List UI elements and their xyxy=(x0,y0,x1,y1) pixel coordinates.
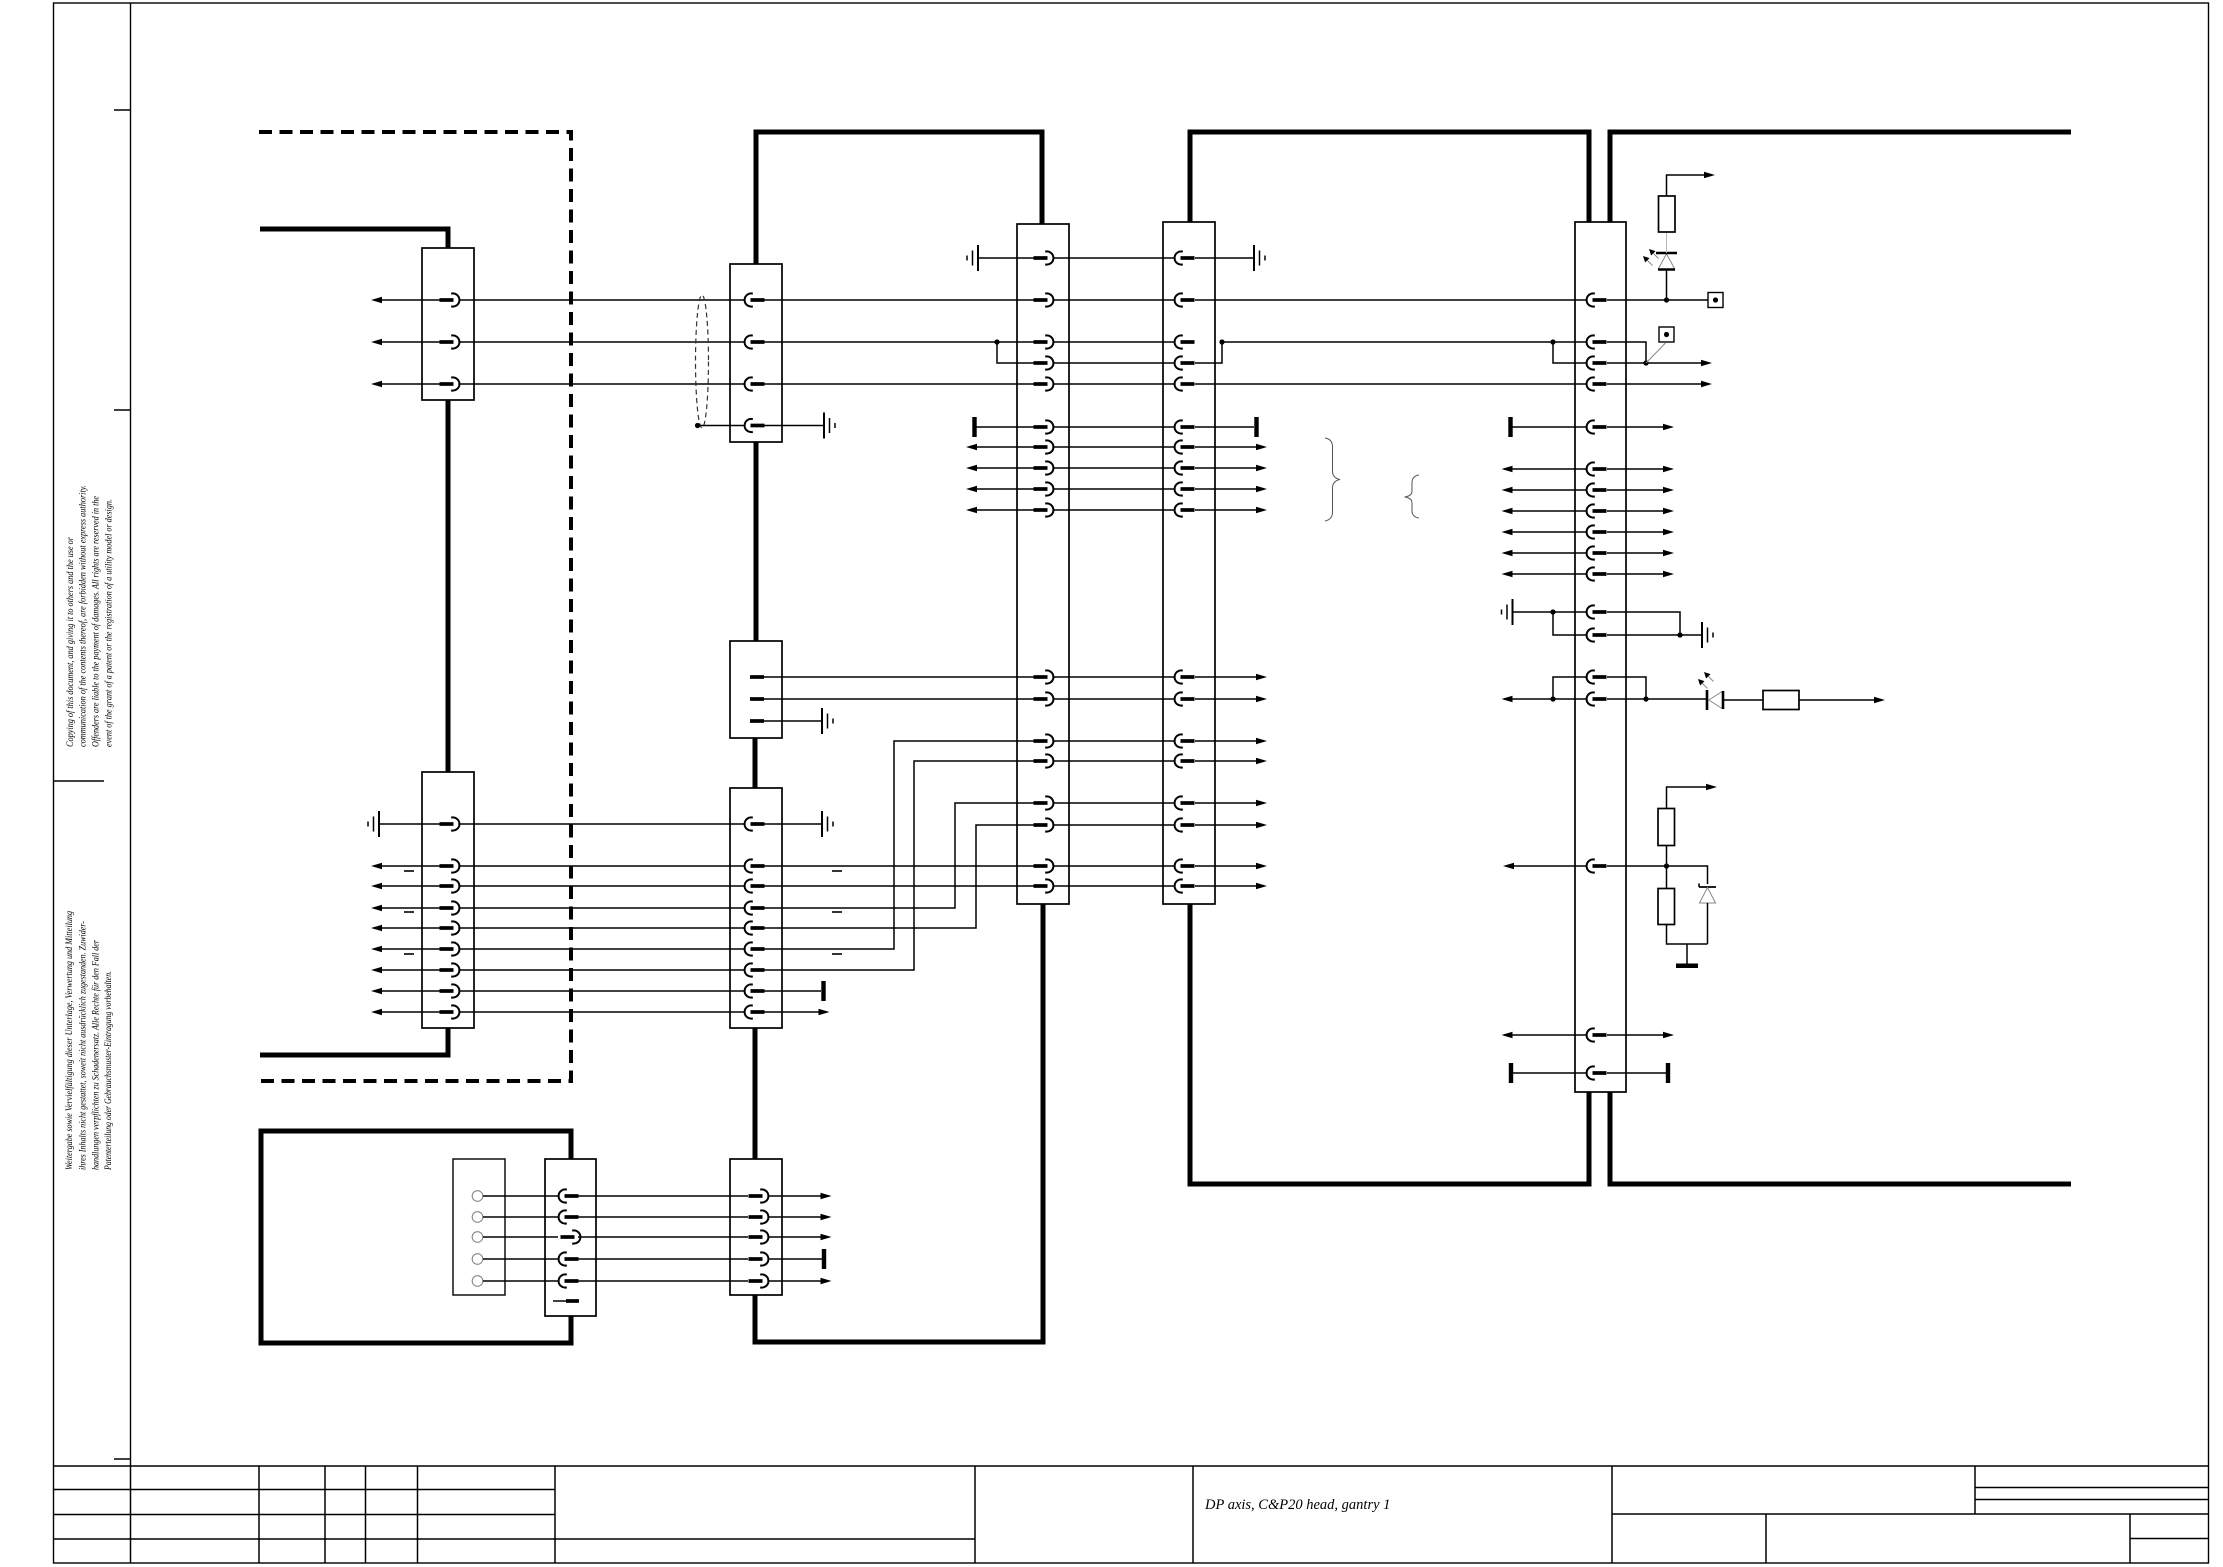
wire K5-K6 row y741 xyxy=(1054,740,1174,742)
margin cell divider xyxy=(54,780,105,782)
pin K9.5 xyxy=(559,1274,579,1287)
ground symbol left of K7 row612 xyxy=(1502,599,1513,625)
termination bar left of K7 row1073 xyxy=(1509,1063,1513,1083)
wire K4-K8 row y866 xyxy=(460,865,744,867)
connector K1 box xyxy=(422,248,474,400)
pin K5.14 row y761 xyxy=(1034,754,1054,767)
pin K5.18 row y886 xyxy=(1034,879,1054,892)
pin K6.2 row300 xyxy=(1175,293,1195,306)
wire K5-K6 row y489 xyxy=(1054,488,1174,490)
bridge wire rows342-363 at K6 xyxy=(1195,342,1222,363)
connector K5 box xyxy=(1017,224,1069,904)
ground symbol left of K4 xyxy=(368,811,379,837)
wire K1 pin3 with off-page arrow left xyxy=(377,383,440,385)
resistor R3 above junction xyxy=(1666,846,1668,867)
svg-text:event of the grant of a patent: event of the grant of a patent or the re… xyxy=(103,499,113,747)
wire K6 to arrow-right row y741 xyxy=(1195,740,1261,742)
pin K5.11 row y677 xyxy=(1034,670,1054,683)
wire K7 row300 to test socket xyxy=(1607,299,1708,301)
wire K9 to K10 row y1237 xyxy=(578,1236,748,1238)
pin K5.1 xyxy=(1034,251,1054,264)
wire R2 to off-page arrow xyxy=(1799,699,1878,701)
resistor R2 xyxy=(1763,691,1799,710)
pin K2.1 xyxy=(745,293,765,306)
wire K6 to tbar row427 xyxy=(1195,426,1254,428)
pin K4.3 xyxy=(440,879,460,892)
wire K4-K8 row y991 xyxy=(460,990,744,992)
bus wire bottom from K7 right going right xyxy=(1610,1092,2071,1184)
pin K3.1 xyxy=(750,675,764,679)
connector K7 box xyxy=(1575,222,1626,1092)
pin K10.2 xyxy=(749,1210,769,1223)
wire K7 row635 to ground right xyxy=(1607,634,1702,636)
pin K10.1 xyxy=(749,1189,769,1202)
wire K5 to K6 row258 xyxy=(1054,257,1174,259)
resistor R1 xyxy=(1659,196,1676,232)
wire K10 to arrow-right row y1217 xyxy=(768,1216,825,1218)
bus wire K8 bottom to K10 top xyxy=(753,1028,758,1159)
wire K5-K6 row342 xyxy=(1054,341,1174,343)
wire arrow-left to K4 row y908 xyxy=(377,907,440,909)
rotated copyright text english xyxy=(65,485,114,747)
wire arrow-left to K7 row1035 xyxy=(1507,1034,1586,1036)
pin K6.1 xyxy=(1175,251,1195,264)
resistor R4 below junction xyxy=(1666,866,1668,889)
wire arrow-left to K7 row866 xyxy=(1509,865,1586,867)
wire K5-K6 row y699 xyxy=(1054,698,1174,700)
wire K7 to arrow-right row y553 xyxy=(1607,552,1668,554)
wire K8 pin1 to ground xyxy=(764,823,822,825)
pin K7.10 xyxy=(1587,546,1607,559)
connector K8 box xyxy=(730,788,782,1028)
wire K2 pin4 to ground xyxy=(764,425,824,427)
pin K5.6 row427 xyxy=(1034,420,1054,433)
pin K6.15 row y803 xyxy=(1175,796,1195,809)
bus wire K1 bottom to K4 top xyxy=(446,400,451,772)
pin K8.3 xyxy=(745,879,765,892)
wire shield row ground-left K5 xyxy=(978,257,1034,259)
pin K6.11 row y677 xyxy=(1175,670,1195,683)
wire K7 row677 to bridge right xyxy=(1607,677,1646,699)
wire K5-K6 row y510 xyxy=(1054,509,1174,511)
rotated copyright text german xyxy=(64,911,113,1171)
wire K6 to arrow-right row y761 xyxy=(1195,760,1261,762)
svg-text:Copying of this document, and: Copying of this document, and giving it … xyxy=(65,537,75,747)
pin K3.3 xyxy=(750,719,764,723)
pin K5.7 xyxy=(1034,440,1054,453)
wire tbar to K7 row1073 xyxy=(1513,1072,1586,1074)
wire junction to LED1 anode xyxy=(1666,269,1668,300)
wire K4-K8 row y928 xyxy=(460,927,744,929)
pin K8.5 xyxy=(745,921,765,934)
wire K7 row363 to arrow xyxy=(1607,362,1706,364)
wire K5-K6 row y866 xyxy=(1054,865,1174,867)
pin K5.9 xyxy=(1034,482,1054,495)
test socket square X2 xyxy=(1659,327,1674,342)
wire K1 pin2 with off-page arrow left xyxy=(377,341,440,343)
bridge rows699-677 left of K7 xyxy=(1553,677,1586,699)
wire K1 pin1 with off-page arrow left xyxy=(377,299,440,301)
terminal strip box inside B10 xyxy=(453,1159,505,1295)
wire K5-K6 row300 xyxy=(1054,299,1174,301)
connector K6 box xyxy=(1163,222,1215,904)
bus wire K3 bottom to K8 top xyxy=(753,738,758,788)
wire K6 to arrow-right row y866 xyxy=(1195,865,1261,867)
wire arrow-left to K7 row y553 xyxy=(1507,552,1586,554)
pin K6.5 row385 xyxy=(1175,377,1195,390)
pin K10.3 xyxy=(749,1230,769,1243)
staircase wire K8 row928 to K5 row825 xyxy=(764,825,1034,928)
wire K8 row1012 to arrow xyxy=(764,1011,823,1013)
pin K7.6 xyxy=(1587,462,1607,475)
pin K6.13 row y741 xyxy=(1175,734,1195,747)
wire K6 to ground-right row258 xyxy=(1195,257,1254,259)
pin K6.4 row363 xyxy=(1175,356,1195,369)
terminal circle 4 in B10 xyxy=(472,1254,483,1265)
wire arrow-left to K4 row y970 xyxy=(377,969,440,971)
wire K7 to arrow-right row y469 xyxy=(1607,468,1668,470)
junction dot row866 xyxy=(1664,863,1669,868)
pin K7.18 row1073 xyxy=(1587,1066,1607,1079)
wire K5-K6 row y761 xyxy=(1054,760,1174,762)
wire K5-K6 row427 xyxy=(1054,426,1174,428)
wire arrow-left to K7 row y511 xyxy=(1507,510,1586,512)
termination bar right of K6 row427 xyxy=(1254,417,1258,437)
wire K6 to arrow-right row y677 xyxy=(1195,676,1261,678)
wire K7 to arrow-right row y511 xyxy=(1607,510,1668,512)
pin K2.3 xyxy=(745,377,765,390)
wire K6 to arrow-right row y886 xyxy=(1195,885,1261,887)
spare pigtail pin K9.6 xyxy=(553,1300,566,1302)
pin K7.11 xyxy=(1587,567,1607,580)
wire K6 to arrow-right row y468 xyxy=(1195,467,1261,469)
termination bar right of K10 xyxy=(822,1249,826,1269)
wire K6 to K7 row300 xyxy=(1195,299,1586,301)
pin K6.3 row342 xyxy=(1175,335,1195,348)
wire K2 to K5 row y300 xyxy=(764,299,1034,301)
wire R1 to off-page arrow xyxy=(1667,175,1709,196)
wire K6 to arrow-right row y489 xyxy=(1195,488,1261,490)
test socket square X1 row300 xyxy=(1708,293,1723,308)
dashed cabinet boundary xyxy=(259,132,571,1081)
pin K6.10 xyxy=(1175,503,1195,516)
connector K9 box xyxy=(545,1159,596,1316)
LED2 emission arrows xyxy=(1708,676,1714,682)
ground symbol right of K6 row258 xyxy=(1254,245,1265,271)
pair mark dashes left xyxy=(404,871,414,954)
bus wire top from K7 right going right xyxy=(1610,132,2071,222)
bus wire top linking K2 and K5 xyxy=(756,132,1042,264)
wire K9 to K10 row y1259 xyxy=(578,1258,748,1260)
pin K2.2 xyxy=(745,335,765,348)
bus wire into connector K1 top xyxy=(260,229,448,248)
wire K7 row427 to arrow xyxy=(1607,426,1668,428)
wire arrow-left to K5 row y489 xyxy=(972,488,1034,490)
wire K7 row1073 to termination right xyxy=(1607,1072,1666,1074)
junction dot row612 xyxy=(1550,609,1555,614)
wire LED1 to resistor R1 xyxy=(1666,232,1668,253)
pin K6.12 row y699 xyxy=(1175,692,1195,705)
pin K6.16 row y825 xyxy=(1175,818,1195,831)
wire K6 to K7 row342 xyxy=(1222,341,1586,343)
pin K5.4 row363 xyxy=(1034,356,1054,369)
pin K7.8 xyxy=(1587,504,1607,517)
cable shield ellipse xyxy=(696,295,709,428)
pin K1.1 xyxy=(440,293,460,306)
wire K10 to arrow-right row y1196 xyxy=(768,1195,825,1197)
junction dot row699 left xyxy=(1550,696,1555,701)
wire tbar to K7 row427 xyxy=(1512,426,1586,428)
wire K4-K8 row y908 xyxy=(460,907,744,909)
pin K4.6 xyxy=(440,942,460,955)
wire terminal to K9 row y1217 xyxy=(483,1216,558,1218)
bus wire K10 bottom to K5 bottom xyxy=(755,904,1043,1342)
wire arrow-left to K4 row y866 xyxy=(377,865,440,867)
pin K3.2 xyxy=(750,697,764,701)
zener diode ZD1 xyxy=(1698,884,1700,888)
bridge rows342-363 left of K7 xyxy=(1553,342,1586,363)
pin K7.1 row300 xyxy=(1587,293,1607,306)
wire K10 to arrow-right row y1237 xyxy=(768,1236,825,1238)
wire tbar to K5 row427 xyxy=(976,426,1034,428)
wire K3 to K5 row y677 xyxy=(764,676,1034,678)
pin K6.6 row427 xyxy=(1175,420,1195,433)
wire K6 to arrow-right row y510 xyxy=(1195,509,1261,511)
wire K2 to K5 row y342 xyxy=(764,341,1034,343)
pin K10.4 xyxy=(749,1252,769,1265)
connector K10 box xyxy=(730,1159,782,1295)
bus wire K4 bottom exiting left xyxy=(260,1028,448,1055)
pin K8.7 xyxy=(745,963,765,976)
wire K3 pin3 to ground xyxy=(764,720,822,722)
terminal circle 2 in B10 xyxy=(472,1212,483,1223)
wire arrow-left to K4 row y991 xyxy=(377,990,440,992)
connector K3 box xyxy=(730,641,782,738)
wire K5-K6 row y886 xyxy=(1054,885,1174,887)
ground symbol right of K8 row824 xyxy=(822,811,833,837)
wire K10 row to termination xyxy=(768,1258,822,1260)
pin K6.17 row y866 xyxy=(1175,859,1195,872)
pin K7.5 row427 xyxy=(1587,420,1607,433)
pin K10.5 xyxy=(749,1274,769,1287)
wire arrow-left to K5 row y447 xyxy=(972,446,1034,448)
staircase wire K8 row970 to K5 row761 xyxy=(764,761,1034,970)
wire arrow-left to K7 row y532 xyxy=(1507,531,1586,533)
annotation brace right xyxy=(1325,438,1340,521)
connector K4 box xyxy=(422,772,474,1028)
wire K4-K8 row y949 xyxy=(460,948,744,950)
pin K9.2 xyxy=(559,1210,579,1223)
wire arrow-left to K4 row y886 xyxy=(377,885,440,887)
LED1 emission arrows xyxy=(1653,253,1659,259)
ground symbol at K2 pin4 xyxy=(824,413,835,439)
junction dot row342 left of K7 xyxy=(1550,339,1555,344)
pin K9.3 xyxy=(561,1230,581,1243)
terminal circle 5 in B10 xyxy=(472,1276,483,1287)
pin K8.9 xyxy=(745,1005,765,1018)
wire K7 row612 to bridge right xyxy=(1607,612,1680,635)
wire arrow-left to K4 row y1012 xyxy=(377,1011,440,1013)
pin K4.8 xyxy=(440,984,460,997)
ground symbol at K3 pin3 xyxy=(822,708,833,734)
junction dot row699 right xyxy=(1643,696,1648,701)
wire K5-K6 row y468 xyxy=(1054,467,1174,469)
wire junction to zener ZD1 xyxy=(1667,866,1708,884)
pin K9.4 xyxy=(559,1252,579,1265)
wire K7 to arrow-right row y532 xyxy=(1607,531,1668,533)
svg-text:ihres Inhalts nicht gestattet,: ihres Inhalts nicht gestattet, soweit ni… xyxy=(77,921,87,1170)
wire LED2 to resistor R2 xyxy=(1723,699,1763,701)
pin K6.8 xyxy=(1175,461,1195,474)
wire K6 to K7 row385 xyxy=(1195,383,1586,385)
pin K6.9 xyxy=(1175,482,1195,495)
wire terminal to K9 row y1237 xyxy=(483,1236,558,1238)
pin K4.5 xyxy=(440,921,460,934)
junction dot row635 right xyxy=(1677,632,1682,637)
wire arrow-left to K4 row y949 xyxy=(377,948,440,950)
pin K5.2 row300 xyxy=(1034,293,1054,306)
bridge wire rows342-363 at K5 xyxy=(997,342,1034,363)
wire terminal to K9 row y1196 xyxy=(483,1195,558,1197)
pin K7.13 row635 xyxy=(1587,628,1607,641)
pin K5.13 row y741 xyxy=(1034,734,1054,747)
connector K2 box xyxy=(730,264,782,442)
wire arrow-left to K5 row y468 xyxy=(972,467,1034,469)
wire K7 row699 to LED2 xyxy=(1607,698,1707,700)
pin K4.7 xyxy=(440,963,460,976)
LED1 indicator diode xyxy=(1658,254,1675,270)
ground symbol left of K5 row258 xyxy=(967,245,978,271)
wire zener to rail xyxy=(1707,903,1709,944)
wire K5-K6 row y447 xyxy=(1054,446,1174,448)
ground bar GND xyxy=(1676,964,1698,969)
svg-text:Offenders are liable to the pa: Offenders are liable to the payment of d… xyxy=(91,496,101,747)
wire arrow-left to K7 row y469 xyxy=(1507,468,1586,470)
wire K6 to arrow-right row y699 xyxy=(1195,698,1261,700)
termination bar left of K7 row427 xyxy=(1508,417,1512,437)
pin K6.14 row y761 xyxy=(1175,754,1195,767)
termination bar right of K7 row1073 xyxy=(1666,1063,1670,1083)
wire K4-K8 row y970 xyxy=(460,969,744,971)
wire K8 row886 to K5 xyxy=(764,885,1034,887)
pin K8.4 xyxy=(745,901,765,914)
wire K5-K6 row385 xyxy=(1054,383,1174,385)
pin K5.17 row y866 xyxy=(1034,859,1054,872)
wire K1 to K2 row y300 xyxy=(460,299,744,301)
shield drain junction xyxy=(695,423,700,428)
LED2 indicator diode xyxy=(1709,691,1723,709)
device enclosure box B10 xyxy=(261,1131,571,1343)
wire K7 row866 to divider junction xyxy=(1607,865,1667,867)
wire arrow-left to K7 row y574 xyxy=(1507,573,1586,575)
pin K5.8 xyxy=(1034,461,1054,474)
bus wire K2 bottom to K3 top xyxy=(754,442,759,641)
wire arrow-left to K5 row y510 xyxy=(972,509,1034,511)
pin K7.4 row385 xyxy=(1587,377,1607,390)
pin K5.16 row y825 xyxy=(1034,818,1054,831)
pin K7.9 xyxy=(1587,525,1607,538)
sheet inner margin line xyxy=(130,3,132,1466)
wire K7 to arrow-right row y490 xyxy=(1607,489,1668,491)
junction dot row363 right of K7 xyxy=(1643,360,1648,365)
svg-text:Weitergabe sowie Vervielfältig: Weitergabe sowie Vervielfältigung dieser… xyxy=(64,911,74,1170)
pin K1.3 xyxy=(440,377,460,390)
pin K4.9 xyxy=(440,1005,460,1018)
svg-text:handlungen verpflichten zu Sch: handlungen verpflichten zu Schadenersatz… xyxy=(90,940,100,1170)
pin K5.3 row342 xyxy=(1034,335,1054,348)
title block grid xyxy=(54,1466,2209,1563)
junction dot row342 left of K5 xyxy=(994,339,999,344)
pin K6.7 xyxy=(1175,440,1195,453)
wire K7 to arrow-right row y574 xyxy=(1607,573,1668,575)
wire terminal to K9 row y1259 xyxy=(483,1258,558,1260)
wire K6 to arrow-right row y447 xyxy=(1195,446,1261,448)
ground symbol right row635 xyxy=(1702,622,1713,648)
bottom rail of divider xyxy=(1667,925,1708,945)
wire K4-K8 row y1012 xyxy=(460,1011,744,1013)
wire R3 to off-page arrow xyxy=(1667,787,1711,809)
wire K2 to K5 row y384 xyxy=(764,383,1034,385)
wire shield drain to K2 pin4 xyxy=(698,425,745,427)
pin K5.5 row385 xyxy=(1034,377,1054,390)
wire K6 to arrow-right row y803 xyxy=(1195,802,1261,804)
pin K4.4 xyxy=(440,901,460,914)
wire arrow-left to K4 row y928 xyxy=(377,927,440,929)
pin K5.15 row y803 xyxy=(1034,796,1054,809)
wire K10 to arrow-right row y1281 xyxy=(768,1280,825,1282)
pin K8.8 xyxy=(745,984,765,997)
pin K7.3 row363 xyxy=(1587,356,1607,369)
pin K2.4 xyxy=(745,419,765,432)
pin K7.7 xyxy=(1587,483,1607,496)
wire K7 row342 to bridge right xyxy=(1607,342,1646,363)
pin K7.12 row612 xyxy=(1587,605,1607,618)
pin K4.1 xyxy=(440,817,460,830)
pin K8.2 xyxy=(745,859,765,872)
lead from test socket X2 to junction xyxy=(1646,343,1666,364)
pin K9.1 xyxy=(559,1189,579,1202)
pin K6.18 row y886 xyxy=(1175,879,1195,892)
wire K4-K8 row y886 xyxy=(460,885,744,887)
svg-text:DP axis, C&P20 head, gantry 1: DP axis, C&P20 head, gantry 1 xyxy=(1204,1497,1390,1513)
wire K1 to K2 row y384 xyxy=(460,383,744,385)
bus wire top linking K6 and K7 left xyxy=(1190,132,1589,222)
annotation brace left xyxy=(1405,475,1420,518)
pin K7.16 row866 xyxy=(1587,859,1607,872)
pin K8.6 xyxy=(745,942,765,955)
terminal circle 1 in B10 xyxy=(472,1191,483,1202)
wire K4-K8 row824 xyxy=(460,823,744,825)
pin K5.10 xyxy=(1034,503,1054,516)
wire K9 to K10 row y1281 xyxy=(578,1280,748,1282)
bridge rows612-635 left of K7 xyxy=(1553,612,1586,635)
wire K7 row1035 to arrow-right xyxy=(1607,1034,1668,1036)
staircase wire K8 row949 to K5 row741 xyxy=(764,741,1034,949)
wire K1 to K2 row y342 xyxy=(460,341,744,343)
staircase wire K8 row908 to K5 row803 xyxy=(764,803,1034,908)
junction dot row300 xyxy=(1664,297,1669,302)
pin K7.2 row342 xyxy=(1587,335,1607,348)
wire ground to K7 row612 xyxy=(1513,611,1587,613)
pair mark dashes right xyxy=(832,871,842,954)
wire K5-K6 row y825 xyxy=(1054,824,1174,826)
terminal circle 3 in B10 xyxy=(472,1232,483,1243)
wire K3 to K5 row y699 xyxy=(764,698,1034,700)
pin K7.14 row677 xyxy=(1587,670,1607,683)
wire K8 row866 to K5 xyxy=(764,865,1034,867)
fold tick marks on left border xyxy=(114,110,131,1459)
junction dot row342 right of K6 xyxy=(1219,339,1224,344)
